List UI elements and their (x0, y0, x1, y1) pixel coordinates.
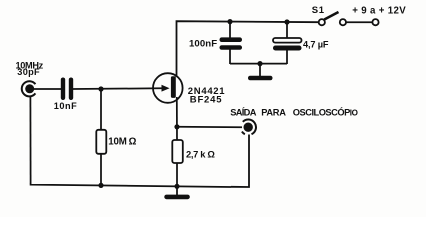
wire: top supply rail (177, 21, 320, 77)
wire: 4.7uF branch down from rail (286, 22, 288, 38)
wire: 100nF branch down from rail (229, 22, 231, 38)
wire: R1 to bottom rail (100, 154, 102, 185)
capacitor C1 10nF plates (61, 78, 73, 101)
node: bottom rail junction at R1 (98, 183, 103, 188)
wire: switch to supply terminal (346, 21, 372, 23)
transistor Q1 channel bar (171, 76, 176, 98)
switch S1 lever (324, 12, 338, 20)
node: source/output junction (174, 124, 179, 129)
svg-text:100nF: 100nF (189, 38, 217, 49)
resistor R1 10M body (96, 130, 106, 154)
wire: 100nF bottom to common (229, 50, 231, 65)
terminal: input connector center pin (25, 84, 34, 93)
resistor R2 2.7k body (172, 140, 183, 163)
wire: 10M branch down from gate node (100, 89, 102, 130)
wire: stem to bottom ground (176, 186, 178, 195)
switch S1 throw contact (340, 19, 346, 25)
wire: 4.7uF bottom to common (286, 50, 288, 64)
terminal: input connector outer shield (22, 81, 36, 96)
ground: capacitor common ground bar (248, 76, 273, 80)
node: capacitor common junction (257, 61, 262, 66)
wire: output tap to terminal (177, 126, 242, 129)
svg-text:BF245: BF245 (190, 94, 223, 105)
wire: output shield down to bottom rail (231, 135, 249, 188)
svg-text:S1: S1 (312, 5, 325, 16)
wire: R2 to bottom rail (176, 163, 178, 186)
ground: bottom rail ground bar (164, 195, 190, 200)
node: drain rail junction at 100nF (227, 19, 232, 24)
wire: source lead down to R2 (176, 97, 178, 140)
svg-text:+ 9 a + 12V: + 9 a + 12V (352, 5, 406, 16)
terminal: +V supply (372, 19, 378, 25)
svg-text:30pF: 30pF (17, 67, 40, 77)
node: drain rail junction at 4.7uF (284, 19, 289, 24)
wire: capacitor common bottom wire (230, 63, 287, 65)
transistor Q1 envelope circle (153, 73, 183, 103)
wire: stem to ground (259, 64, 261, 77)
capacitor C2 100nF plates (220, 37, 243, 49)
svg-text:10nF: 10nF (54, 101, 77, 111)
terminal: output connector center pin (244, 123, 253, 132)
switch S1 pole contact (319, 19, 325, 25)
wire: input shield down left side (29, 96, 31, 184)
wire: C1 to gate (73, 87, 162, 90)
svg-text:10M Ω: 10M Ω (108, 136, 136, 147)
wire: bottom ground rail (31, 184, 231, 187)
svg-text:4,7 µF: 4,7 µF (303, 39, 329, 49)
terminal: output connector outer shield (242, 120, 256, 135)
node: bottom rail junction at R2 (174, 184, 179, 189)
svg-text:2,7 k Ω: 2,7 k Ω (186, 148, 215, 159)
svg-text:SAÍDAPARAOSCILOSCÓPIO: SAÍDAPARAOSCILOSCÓPIO (230, 107, 357, 118)
transistor Q1 gate arrow (162, 85, 170, 92)
wire: input signal to C1 (33, 88, 61, 90)
capacitor C3 4.7uF electrolytic plates (273, 38, 302, 51)
node: gate junction to R1 (98, 86, 103, 91)
